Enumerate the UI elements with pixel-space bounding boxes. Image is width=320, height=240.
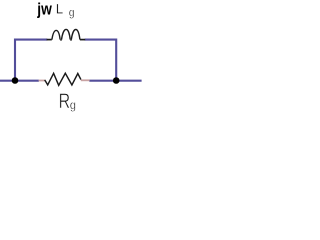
resistor Rg : zigzag body — [45, 73, 81, 85]
junction node right — [113, 77, 120, 84]
inductor jwLg : tick 1 — [60, 39, 62, 41]
resistor Rg : left lead — [39, 80, 45, 82]
wire: top-right segment and right vertical — [85, 40, 117, 81]
inductor jwLg : right lead — [80, 39, 85, 41]
junction node left — [12, 77, 19, 84]
svg-text:jw: jw — [36, 1, 52, 19]
svg-text:g: g — [70, 98, 76, 112]
inductor jwLg : left lead — [47, 39, 52, 41]
svg-text:R: R — [59, 89, 71, 113]
inductor jwLg : hump 1 — [52, 30, 60, 39]
resistor Rg : right lead — [81, 79, 90, 81]
inductor jwLg : hump 2 — [62, 29, 71, 39]
wire: bottom rail left — [0, 80, 39, 82]
inductor jwLg : tick 2 — [70, 39, 72, 41]
wire: left vertical and top-left segment — [15, 40, 47, 81]
wire: bottom rail right — [89, 80, 141, 82]
inductor jwLg : hump 3 — [71, 30, 80, 40]
svg-text:L: L — [56, 1, 64, 16]
svg-text:g: g — [69, 6, 75, 19]
